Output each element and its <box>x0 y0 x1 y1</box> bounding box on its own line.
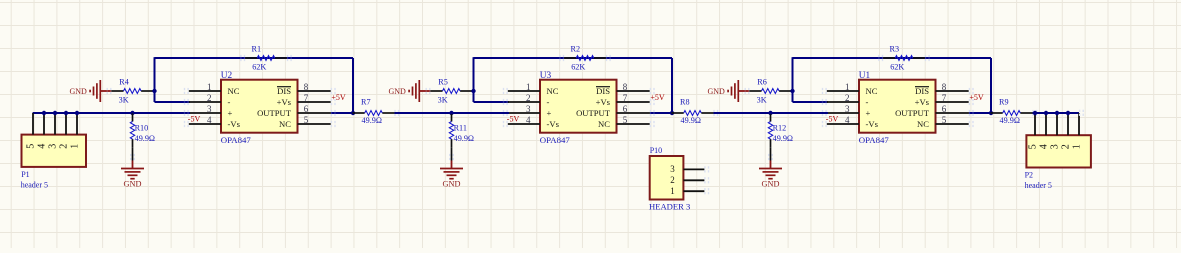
svg-text:5: 5 <box>623 115 628 125</box>
P1 pin 3 <box>54 113 56 135</box>
junction <box>1033 111 1037 115</box>
svg-text:2: 2 <box>526 93 531 103</box>
op-amp U2 OPA847 <box>221 80 298 133</box>
svg-text:7: 7 <box>623 93 628 103</box>
svg-text:GND: GND <box>707 87 725 96</box>
svg-text:NC: NC <box>866 86 878 96</box>
pin 4 -Vs <box>189 123 221 125</box>
svg-text:4: 4 <box>207 115 212 125</box>
resistor R6 3K <box>749 90 761 92</box>
svg-text:U3: U3 <box>540 71 552 81</box>
junction node R5/feedback <box>471 89 475 93</box>
junction node R6/feedback <box>790 89 794 93</box>
svg-text:1: 1 <box>1071 144 1082 149</box>
pin 3 non-inverting input <box>509 112 540 114</box>
resistor R9 49.9&#937; (series output) <box>991 112 1003 114</box>
svg-text:-Vs: -Vs <box>228 119 241 129</box>
svg-text:OPA847: OPA847 <box>221 135 252 145</box>
pin 6 OUTPUT <box>298 112 332 114</box>
svg-text:3: 3 <box>207 104 212 114</box>
svg-text:+Vs: +Vs <box>915 97 930 107</box>
svg-text:OUTPUT: OUTPUT <box>895 108 930 118</box>
wire feedback right vertical <box>352 58 354 113</box>
power port GND (input divider, stage U1) <box>727 90 729 93</box>
wire stage1 output bus <box>395 112 510 114</box>
svg-text:1: 1 <box>69 144 80 149</box>
pin 2 inverting input <box>508 101 540 103</box>
resistor R11 49.9&#937; (shunt) <box>451 112 453 115</box>
svg-text:header 5: header 5 <box>1025 181 1052 190</box>
svg-text:49.9Ω: 49.9Ω <box>454 134 474 143</box>
pin 8 DIS <box>298 90 331 92</box>
svg-text:3K: 3K <box>119 96 129 105</box>
pin 2 inverting input <box>827 101 859 103</box>
svg-text:P1: P1 <box>21 170 29 179</box>
svg-text:R11: R11 <box>454 123 467 132</box>
wire stage3 output bus to P2 <box>1033 112 1080 114</box>
svg-text:GND: GND <box>443 180 461 189</box>
svg-text:8: 8 <box>623 82 628 92</box>
svg-text:1: 1 <box>670 186 675 196</box>
svg-text:-: - <box>547 97 550 107</box>
svg-text:3: 3 <box>526 104 531 114</box>
svg-text:R6: R6 <box>757 78 767 87</box>
P2 pin 1 <box>1078 113 1080 135</box>
pin 7 +Vs <box>298 101 331 103</box>
svg-text:3K: 3K <box>757 96 767 105</box>
svg-text:7: 7 <box>942 93 947 103</box>
junction node bus/R11 <box>449 111 453 115</box>
svg-text:header 5: header 5 <box>21 180 48 189</box>
connector P10 HEADER 3 <box>650 156 684 200</box>
wire to inverting input pin 2 <box>155 101 191 103</box>
svg-text:62K: 62K <box>571 63 585 72</box>
svg-text:3K: 3K <box>438 96 448 105</box>
svg-text:-5V: -5V <box>507 114 520 123</box>
power port GND (input divider, stage U3) <box>408 90 410 93</box>
svg-text:DIS: DIS <box>596 86 610 96</box>
P10 pin 1 <box>683 190 704 192</box>
P10 pin 3 <box>683 168 704 170</box>
svg-text:GND: GND <box>124 180 142 189</box>
svg-text:DIS: DIS <box>277 86 291 96</box>
svg-text:R2: R2 <box>571 44 581 53</box>
wire feedback left vertical <box>792 57 794 102</box>
wire stage2 output bus <box>714 112 829 114</box>
svg-text:OPA847: OPA847 <box>859 135 890 145</box>
junction <box>1055 111 1059 115</box>
svg-text:4: 4 <box>845 115 850 125</box>
wire feedback top rail <box>155 57 354 59</box>
pin 5 NC <box>298 123 331 125</box>
P2 pin 2 <box>1067 113 1069 135</box>
junction <box>53 111 57 115</box>
junction node output <box>351 111 355 115</box>
svg-text:2: 2 <box>58 144 69 149</box>
resistor R10 49.9&#937; (shunt) <box>132 112 134 115</box>
P1 pin 5 <box>32 113 34 135</box>
pin 3 non-inverting input <box>828 112 859 114</box>
svg-text:R10: R10 <box>135 123 149 132</box>
wire feedback top rail <box>474 57 673 59</box>
connector P2 header 5 <box>1026 135 1091 167</box>
svg-text:1: 1 <box>207 82 212 92</box>
pin 4 -Vs <box>508 123 540 125</box>
svg-text:+: + <box>866 108 871 118</box>
svg-text:R9: R9 <box>999 98 1009 107</box>
svg-text:OUTPUT: OUTPUT <box>257 108 292 118</box>
svg-text:GND: GND <box>69 87 87 96</box>
svg-text:R3: R3 <box>890 44 900 53</box>
junction node bus/R12 <box>768 111 772 115</box>
svg-text:-Vs: -Vs <box>547 119 560 129</box>
svg-text:P10: P10 <box>650 146 662 155</box>
svg-text:NC: NC <box>547 86 559 96</box>
svg-text:3: 3 <box>47 144 58 149</box>
svg-text:2: 2 <box>845 93 850 103</box>
pin 3 non-inverting input <box>190 112 221 114</box>
svg-text:3: 3 <box>845 104 850 114</box>
svg-text:3: 3 <box>1049 144 1060 149</box>
junction <box>42 111 46 115</box>
pin 7 +Vs <box>617 101 650 103</box>
resistor R5 3K <box>430 90 442 92</box>
svg-text:49.9Ω: 49.9Ω <box>362 116 382 125</box>
svg-text:+: + <box>547 108 552 118</box>
wire feedback right vertical <box>671 58 673 113</box>
junction <box>1066 111 1070 115</box>
svg-text:OUTPUT: OUTPUT <box>576 108 611 118</box>
resistor R12 49.9&#937; (shunt) <box>770 112 772 115</box>
resistor R7 49.9&#937; (series output) <box>353 112 365 114</box>
svg-text:62K: 62K <box>252 63 266 72</box>
resistor R1 62K (feedback) <box>245 57 257 59</box>
power port GND (input divider, stage U2) <box>89 90 91 93</box>
svg-text:+Vs: +Vs <box>277 97 292 107</box>
svg-text:-: - <box>228 97 231 107</box>
pin 8 DIS <box>936 90 969 92</box>
svg-text:DIS: DIS <box>915 86 929 96</box>
junction node bus/R10 <box>130 111 134 115</box>
op-amp U1 OPA847 <box>859 80 936 133</box>
svg-text:+5V: +5V <box>650 93 665 102</box>
svg-text:49.9Ω: 49.9Ω <box>1000 116 1020 125</box>
svg-text:6: 6 <box>623 104 628 114</box>
svg-text:6: 6 <box>304 104 309 114</box>
svg-text:5: 5 <box>25 144 36 149</box>
svg-text:49.9Ω: 49.9Ω <box>773 134 793 143</box>
P1 pin 1 <box>76 113 78 135</box>
svg-text:8: 8 <box>942 82 947 92</box>
svg-text:+5V: +5V <box>331 93 346 102</box>
svg-text:R12: R12 <box>773 123 787 132</box>
junction node output <box>670 111 674 115</box>
svg-text:4: 4 <box>36 144 47 149</box>
junction <box>75 111 79 115</box>
svg-text:2: 2 <box>670 175 675 185</box>
svg-text:U1: U1 <box>859 71 871 81</box>
svg-text:NC: NC <box>279 119 291 129</box>
wire input bus P1 to U2 pin 3 <box>33 112 190 114</box>
svg-text:5: 5 <box>304 115 309 125</box>
svg-text:2: 2 <box>207 93 212 103</box>
svg-text:R4: R4 <box>119 78 129 87</box>
ground GND (earth) <box>451 161 453 169</box>
ground GND (earth) <box>770 161 772 169</box>
svg-text:+5V: +5V <box>969 93 984 102</box>
junction node R4/feedback <box>152 89 156 93</box>
resistor R8 49.9&#937; (series output) <box>672 112 684 114</box>
svg-text:7: 7 <box>304 93 309 103</box>
wire feedback left vertical <box>154 57 156 102</box>
svg-text:GND: GND <box>762 180 780 189</box>
P10 pin 2 <box>683 179 704 181</box>
pin 1 NC <box>189 90 221 92</box>
wire to inverting input pin 2 <box>793 101 829 103</box>
svg-text:-5V: -5V <box>188 114 201 123</box>
pin 4 -Vs <box>827 123 859 125</box>
P2 pin 4 <box>1045 113 1047 135</box>
pin 8 DIS <box>617 90 650 92</box>
svg-text:4: 4 <box>1038 144 1049 149</box>
wire to inverting input pin 2 <box>474 101 510 103</box>
svg-text:+: + <box>228 108 233 118</box>
junction <box>1044 111 1048 115</box>
wire feedback left vertical <box>473 57 475 102</box>
pin 7 +Vs <box>936 101 969 103</box>
wire output to series resistor <box>969 112 991 114</box>
P1 pin 4 <box>43 113 45 135</box>
pin 6 OUTPUT <box>617 112 651 114</box>
wire output to series resistor <box>650 112 672 114</box>
svg-text:5: 5 <box>1027 144 1038 149</box>
svg-text:P2: P2 <box>1025 170 1033 179</box>
ground GND (earth) <box>132 161 134 169</box>
svg-text:2: 2 <box>1060 144 1071 149</box>
resistor R3 62K (feedback) <box>883 57 895 59</box>
svg-text:6: 6 <box>942 104 947 114</box>
svg-text:8: 8 <box>304 82 309 92</box>
svg-text:3: 3 <box>670 164 675 174</box>
svg-text:NC: NC <box>598 119 610 129</box>
P1 pin 2 <box>65 113 67 135</box>
pin 6 OUTPUT <box>936 112 970 114</box>
svg-text:-5V: -5V <box>826 114 839 123</box>
svg-text:R5: R5 <box>438 78 448 87</box>
pin 5 NC <box>936 123 969 125</box>
P2 pin 3 <box>1056 113 1058 135</box>
wire feedback right vertical <box>990 58 992 113</box>
pin 1 NC <box>508 90 540 92</box>
svg-text:NC: NC <box>228 86 240 96</box>
pin 5 NC <box>617 123 650 125</box>
svg-text:5: 5 <box>942 115 947 125</box>
svg-text:+Vs: +Vs <box>596 97 611 107</box>
svg-text:1: 1 <box>845 82 850 92</box>
resistor R4 3K <box>111 90 123 92</box>
svg-text:R8: R8 <box>680 98 690 107</box>
svg-text:62K: 62K <box>890 63 904 72</box>
wire feedback top rail <box>793 57 992 59</box>
junction <box>64 111 68 115</box>
connector P1 header 5 <box>22 135 87 167</box>
svg-text:NC: NC <box>917 119 929 129</box>
svg-text:U2: U2 <box>221 71 233 81</box>
wire output to series resistor <box>331 112 353 114</box>
svg-text:HEADER 3: HEADER 3 <box>649 201 690 211</box>
svg-text:R7: R7 <box>361 98 371 107</box>
svg-text:OPA847: OPA847 <box>540 135 571 145</box>
pin 2 inverting input <box>189 101 221 103</box>
svg-text:49.9Ω: 49.9Ω <box>681 116 701 125</box>
P2 pin 5 <box>1034 113 1036 135</box>
junction node output <box>989 111 993 115</box>
svg-text:1: 1 <box>526 82 531 92</box>
pin 1 NC <box>827 90 859 92</box>
svg-text:R1: R1 <box>252 44 262 53</box>
svg-text:GND: GND <box>388 87 406 96</box>
svg-text:4: 4 <box>526 115 531 125</box>
svg-text:49.9Ω: 49.9Ω <box>135 134 155 143</box>
op-amp U3 OPA847 <box>540 80 617 133</box>
svg-text:-: - <box>866 97 869 107</box>
svg-text:-Vs: -Vs <box>866 119 879 129</box>
resistor R2 62K (feedback) <box>564 57 576 59</box>
